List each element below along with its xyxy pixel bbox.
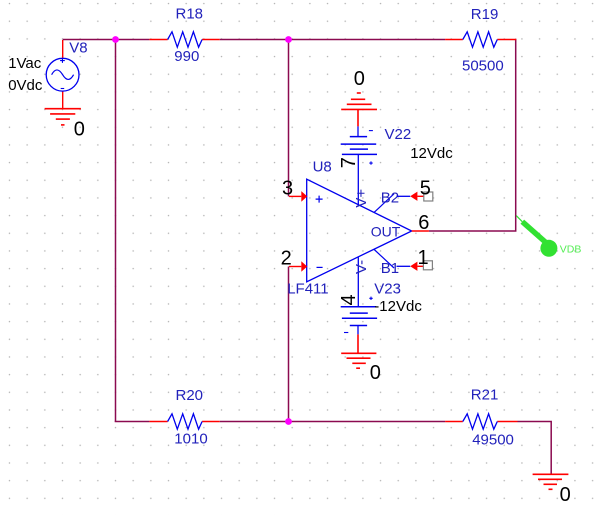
- resistor R18: [149, 32, 219, 47]
- wire mid vertical to pin 3: [288, 40, 290, 197]
- svg-text:R18: R18: [176, 6, 204, 23]
- wire mid vertical to pin 2: [288, 267, 290, 422]
- svg-text:49500: 49500: [472, 432, 514, 449]
- svg-text:2: 2: [281, 248, 292, 270]
- resistor R20: [149, 414, 219, 429]
- svg-text:3: 3: [282, 178, 293, 200]
- svg-text:0: 0: [370, 362, 381, 384]
- source V8: [46, 40, 79, 109]
- source V23 battery: [341, 297, 377, 335]
- svg-text:U8: U8: [313, 159, 332, 176]
- svg-text:-12Vdc: -12Vdc: [374, 298, 422, 315]
- svg-text:B1: B1: [381, 260, 399, 277]
- svg-text:0Vdc: 0Vdc: [8, 77, 43, 94]
- svg-text:V23: V23: [374, 280, 401, 297]
- svg-text:0: 0: [354, 68, 365, 90]
- ground 0 below V8: [45, 109, 81, 125]
- pin 3 of U8: [289, 191, 307, 202]
- svg-text:V22: V22: [385, 126, 412, 143]
- svg-text:1: 1: [418, 247, 429, 269]
- svg-text:6: 6: [418, 212, 429, 234]
- ground 0 top middle (inverted): [341, 93, 377, 126]
- svg-text:12Vdc: 12Vdc: [410, 145, 453, 162]
- wire right vertical and output horizontal: [429, 39, 516, 231]
- svg-text:LF411: LF411: [287, 281, 328, 298]
- pin 1 of U8 (unconnected): [397, 261, 433, 271]
- junction at top rail and V8 branch: [112, 36, 119, 43]
- svg-text:V8: V8: [69, 40, 87, 57]
- pin 6 output of U8: [412, 230, 429, 232]
- svg-text:0: 0: [74, 119, 85, 141]
- wire bottom rail right segment to ground: [518, 422, 552, 475]
- svg-text:990: 990: [174, 48, 199, 65]
- wire top rail middle segment: [220, 39, 445, 41]
- wire bottom rail left segment: [115, 421, 150, 423]
- svg-text:50500: 50500: [462, 58, 504, 75]
- svg-text:R21: R21: [471, 386, 499, 403]
- svg-text:1Vac: 1Vac: [8, 55, 42, 72]
- svg-text:R19: R19: [471, 6, 499, 23]
- pin 5 of U8 (unconnected): [397, 192, 433, 201]
- ground 0 below V23: [341, 334, 376, 368]
- svg-text:4: 4: [338, 294, 360, 305]
- resistor R21: [445, 414, 517, 429]
- junction at bottom rail and pin 2 branch: [285, 418, 292, 425]
- svg-text:7: 7: [338, 157, 360, 168]
- svg-text:V-: V-: [353, 260, 370, 274]
- svg-text:OUT: OUT: [371, 224, 401, 240]
- svg-text:VDB: VDB: [560, 244, 582, 256]
- svg-text:R20: R20: [176, 387, 204, 404]
- svg-text:1010: 1010: [174, 431, 207, 448]
- wire left vertical: [115, 40, 117, 422]
- ground 0 bottom right: [533, 474, 569, 489]
- junction at top rail and pin 3 branch: [285, 36, 292, 43]
- wire top rail left segment: [63, 39, 150, 41]
- wire bottom rail middle segment: [220, 421, 445, 423]
- probe marker VDB: [516, 216, 557, 257]
- source V22 battery: [341, 126, 377, 164]
- svg-text:0: 0: [560, 484, 571, 506]
- resistor R19: [445, 32, 516, 47]
- svg-text:B2: B2: [381, 190, 399, 207]
- svg-text:5: 5: [420, 178, 431, 200]
- pin 2 of U8: [289, 261, 307, 272]
- op-amp U8: [307, 154, 412, 306]
- svg-text:V+: V+: [353, 189, 370, 208]
